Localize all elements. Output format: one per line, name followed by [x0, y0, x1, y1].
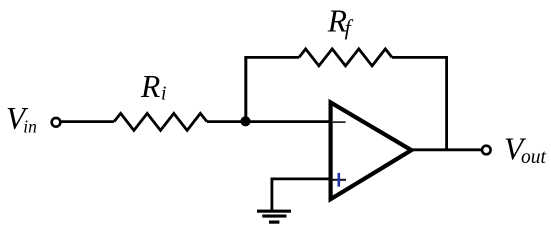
label Ri [140, 69, 166, 104]
wire feedback left segment [246, 57, 299, 122]
wire noninverting input to ground [272, 179, 331, 211]
resistor Ri [114, 113, 207, 130]
label Rf [327, 4, 354, 40]
svg-text:i: i [161, 83, 166, 104]
wire feedback right segment [392, 56, 447, 59]
label Vout [504, 132, 547, 168]
op-amp noninverting input marker [332, 173, 346, 187]
wire Ri to node A [207, 120, 246, 123]
svg-text:out: out [521, 147, 547, 168]
terminal Vout [482, 146, 491, 155]
node A junction dot [240, 116, 250, 126]
resistor Rf [299, 49, 392, 66]
svg-text:R: R [140, 69, 160, 104]
op-amp inverting input marker [333, 121, 346, 123]
wire node A to op-amp inverting input [245, 120, 331, 123]
op-amp U1 [331, 102, 412, 199]
ground [257, 210, 291, 224]
wire Vin terminal to Ri [61, 120, 114, 123]
label Vin [6, 101, 37, 137]
svg-text:in: in [23, 116, 37, 136]
wire node A up to feedback branch [244, 56, 247, 122]
wire op-amp output [411, 148, 481, 151]
wire feedback down to output [445, 56, 448, 150]
terminal Vin [52, 118, 61, 127]
